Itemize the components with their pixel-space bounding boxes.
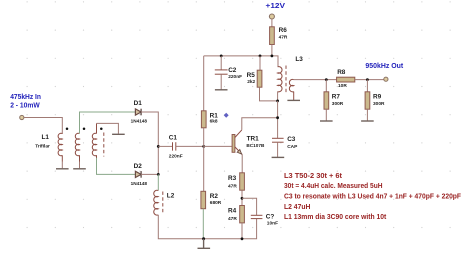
L3 core dashes <box>285 66 287 94</box>
svg-text:1N4148: 1N4148 <box>131 119 148 124</box>
wire D2 node down to L2 (green) <box>157 174 159 190</box>
svg-text:2k2: 2k2 <box>247 79 255 85</box>
resistor R3 <box>228 173 244 206</box>
svg-text:220nF: 220nF <box>228 74 242 80</box>
resistor R8 <box>337 69 355 89</box>
svg-text:47R: 47R <box>228 183 237 189</box>
svg-text:6k8: 6k8 <box>210 119 218 125</box>
wire L1 w3 bottom to D2 (green) <box>97 158 136 175</box>
wire base <box>204 145 233 147</box>
label 475kHz In <box>10 92 41 109</box>
resistor R9 <box>365 80 385 121</box>
diode D2 <box>131 163 148 186</box>
capacitor C7 <box>242 198 278 226</box>
wire node C1 down to D2 node <box>157 146 159 174</box>
node R6 bottom <box>271 55 274 58</box>
svg-text:300R: 300R <box>373 101 385 107</box>
wire top rail <box>204 56 278 67</box>
svg-text:L2: L2 <box>167 192 175 199</box>
wire emitter to R3 <box>241 155 243 173</box>
svg-text:R4: R4 <box>228 208 237 215</box>
node rail/ground junction <box>202 237 205 240</box>
blue marker <box>224 113 229 118</box>
svg-text:C?: C? <box>266 214 275 221</box>
ground (L1 w2) <box>73 168 86 170</box>
node collector junction <box>276 116 279 119</box>
svg-text:47R: 47R <box>279 34 288 40</box>
svg-text:C2: C2 <box>228 67 237 74</box>
svg-text:L2 47uH: L2 47uH <box>284 202 310 211</box>
transformer L3 primary <box>278 67 282 101</box>
svg-text:47R: 47R <box>228 216 237 222</box>
svg-text:C3: C3 <box>287 136 296 143</box>
resistor R5 <box>247 56 278 101</box>
svg-text:BC107B: BC107B <box>246 143 265 148</box>
resistor R2 <box>201 146 222 238</box>
svg-text:D1: D1 <box>134 100 143 107</box>
ground (main rail) <box>198 239 211 249</box>
svg-text:L1 13mm dia 3C90 core with 10: L1 13mm dia 3C90 core with 10t <box>284 212 387 221</box>
wire D2 cathode to node <box>141 173 158 175</box>
capacitor C3 <box>272 136 298 157</box>
svg-text:L3 T50-2 30t + 6t: L3 T50-2 30t + 6t <box>284 171 343 180</box>
capacitor C1 <box>158 135 203 160</box>
ground (R7) <box>320 120 333 122</box>
svg-text:R8: R8 <box>337 69 346 76</box>
power terminal <box>269 14 274 19</box>
node R3/R4/C7 <box>241 197 244 200</box>
svg-text:2 - 10mW: 2 - 10mW <box>10 100 40 109</box>
wire L2 bottom to rail <box>158 215 256 239</box>
svg-text:C1: C1 <box>169 135 178 142</box>
svg-text:Trifilar: Trifilar <box>35 143 50 149</box>
ground (L1 w3 top) <box>112 133 125 135</box>
ground (C3) <box>272 156 285 158</box>
wire D1 cathode down to C1 node <box>141 112 158 146</box>
ground (L1 w1) <box>56 168 69 170</box>
output terminal <box>384 77 388 81</box>
svg-text:220nF: 220nF <box>169 154 183 160</box>
svg-text:R5: R5 <box>247 72 256 79</box>
inductor L1 winding 1 <box>58 133 62 168</box>
svg-text:R1: R1 <box>210 112 219 119</box>
svg-text:L1: L1 <box>42 134 50 141</box>
L1 phase dots <box>66 127 103 130</box>
svg-text:L3: L3 <box>295 56 303 63</box>
resistor R7 <box>324 80 344 121</box>
svg-text:R3: R3 <box>228 175 237 182</box>
svg-text:300R: 300R <box>332 101 344 107</box>
wire L3 secondary to output <box>294 79 337 81</box>
node R9 top <box>366 78 369 81</box>
svg-text:1N4148: 1N4148 <box>131 181 148 186</box>
ground (C2) <box>215 89 228 91</box>
svg-text:30t = 4.4uH calc. Measured 5uH: 30t = 4.4uH calc. Measured 5uH <box>284 181 383 190</box>
wire L1 w2 top to D1 (green) <box>80 112 136 134</box>
inductor L2 <box>154 190 175 215</box>
L1 core dashes <box>103 133 105 157</box>
ground (L3 secondary) <box>287 99 300 101</box>
wire tank node down <box>277 101 279 138</box>
grid dots <box>27 1 451 228</box>
node R5 top <box>259 55 262 58</box>
svg-text:TR1: TR1 <box>247 135 260 142</box>
svg-text:R6: R6 <box>279 27 288 34</box>
node D2 junction <box>157 173 160 176</box>
svg-text:R2: R2 <box>210 193 219 200</box>
wire collector <box>242 118 278 130</box>
node C2 top <box>220 55 223 58</box>
svg-text:+12V: +12V <box>266 1 287 10</box>
svg-text:680R: 680R <box>210 200 222 206</box>
svg-text:D2: D2 <box>134 163 143 170</box>
wire input to L1 winding1 <box>24 118 62 135</box>
node R1/R2/base junction <box>202 145 205 148</box>
svg-text:R7: R7 <box>332 94 341 101</box>
label L1 <box>35 134 50 149</box>
resistor R6 <box>270 19 288 56</box>
ground (R9) <box>361 120 374 122</box>
node R7 top <box>325 78 328 81</box>
inductor L1 winding 2 <box>75 133 79 168</box>
node L3 primary bottom <box>276 100 279 103</box>
svg-text:950kHz Out: 950kHz Out <box>365 61 403 70</box>
inductor L1 winding 3 <box>92 123 96 160</box>
resistor R1 <box>201 56 218 146</box>
svg-text:C3 to resonate with L3 Used 4: C3 to resonate with L3 Used 4n7 + 1nF + … <box>284 192 461 201</box>
input terminal <box>20 115 24 119</box>
diode D1 <box>131 100 148 123</box>
svg-text:10nF: 10nF <box>267 221 278 227</box>
notes text <box>284 171 461 221</box>
transistor TR1 <box>232 130 265 155</box>
node R4 rail <box>241 237 244 240</box>
svg-text:10R: 10R <box>338 83 347 89</box>
transformer L3 secondary <box>289 79 293 100</box>
svg-text:R9: R9 <box>373 94 382 101</box>
resistor R4 <box>228 206 244 239</box>
node C1 junction <box>157 145 160 148</box>
svg-text:CAP: CAP <box>287 144 298 150</box>
wire R8 to out terminal <box>355 79 384 81</box>
capacitor C2 <box>215 56 242 90</box>
wire L1 w3 top to ground <box>97 123 119 133</box>
